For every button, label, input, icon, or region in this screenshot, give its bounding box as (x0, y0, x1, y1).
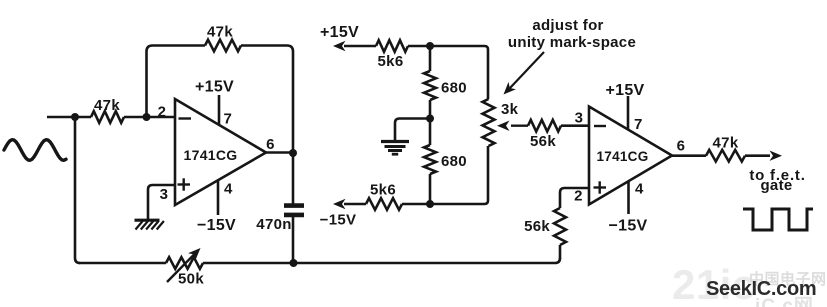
wire: mid node to ground (395, 119, 430, 142)
wire + arrow: to -15V rail (344, 203, 366, 206)
wire: 680 lower to bottom node (429, 174, 432, 204)
ground (U1 pin 3, hatched) (135, 219, 160, 222)
resistor R 56k (to pin 3) (528, 120, 561, 132)
op-amp U2 (1741CG) triangle (589, 107, 672, 205)
resistor R 56k (pin 2) (554, 208, 566, 245)
svg-text:6: 6 (677, 138, 686, 155)
sine-wave input symbol (4, 140, 66, 161)
3k wiper arrow (511, 124, 528, 126)
wire + arrow: output to f.e.t. gate (745, 154, 770, 157)
wire: bottom rail right segment (203, 258, 560, 263)
node: summing junction (143, 113, 151, 121)
resistor R 680 (upper) (424, 71, 436, 100)
node: U1 output junction (289, 149, 297, 157)
wire: capacitor to bottom rail (292, 217, 295, 263)
U2 non-inverting plus sign (594, 186, 607, 188)
watermark 21ic (672, 264, 756, 306)
wire: 56k to U2 pin 3 (561, 124, 589, 127)
node: divider top (426, 42, 434, 50)
resistor R 5k6 (bottom) (366, 198, 402, 210)
svg-text:47k: 47k (713, 135, 739, 152)
svg-text:+15V: +15V (605, 82, 644, 99)
wire: 680 to mid node (429, 100, 432, 119)
svg-text:−15V: −15V (320, 212, 357, 229)
wire: bottom rail left segment (79, 262, 166, 265)
wire: U1 pin 7 supply lead (218, 95, 221, 126)
svg-text:2: 2 (158, 104, 167, 121)
square-wave output symbol (743, 209, 813, 230)
svg-text:5k6: 5k6 (370, 182, 396, 199)
U2 inverting minus sign (594, 125, 606, 127)
svg-text:1741CG: 1741CG (184, 147, 238, 163)
wire: output node down to capacitor (292, 153, 295, 204)
svg-text:680: 680 (441, 80, 467, 97)
wire: U2 pin 4 supply lead (627, 181, 630, 214)
wire: input stub (47, 116, 91, 119)
wire: divider node down (429, 46, 432, 71)
svg-text:4: 4 (635, 181, 644, 198)
svg-text:adjust for: adjust for (532, 17, 603, 34)
wire: 56k down to bottom rail (559, 245, 562, 259)
svg-text:1741CG: 1741CG (596, 149, 648, 164)
resistor R 680 (lower) (424, 145, 436, 174)
op-amp U1 (1741CG) triangle (175, 99, 266, 205)
svg-text:unity mark-space: unity mark-space (508, 34, 636, 51)
wire: U1 output (266, 151, 293, 154)
svg-text:3: 3 (575, 110, 584, 127)
svg-text:47k: 47k (94, 97, 120, 114)
annotation arrow to 3k (510, 52, 544, 88)
watermark chinese (749, 268, 827, 289)
svg-text:470n: 470n (256, 216, 291, 233)
watermark SeekIC.com (706, 278, 816, 301)
wire: to pin 2 (124, 116, 175, 119)
svg-text:7: 7 (224, 111, 232, 128)
wire: feedback loop left vertical (147, 46, 206, 118)
watermark row2 (755, 291, 827, 307)
ground (divider, bar style) (381, 140, 409, 143)
wire: top rail to divider node (408, 46, 488, 99)
resistor R 47k (input) (91, 111, 124, 123)
wire + arrow: to +15V rail (344, 45, 376, 48)
svg-text:3k: 3k (501, 101, 519, 118)
50k wiper arrow (167, 253, 196, 283)
resistor R 5k6 (top) (376, 40, 408, 52)
node: divider bottom (426, 200, 434, 208)
potentiometer R 3k (483, 99, 495, 146)
wire: mid node down (429, 119, 432, 146)
wire: feedback top rail right part (241, 46, 293, 153)
node: divider mid (426, 115, 434, 123)
svg-text:47k: 47k (207, 24, 233, 41)
wire: U2 pin 7 supply lead (627, 96, 630, 130)
wire: U1 pin 3 to ground (148, 185, 175, 219)
svg-text:56k: 56k (524, 218, 550, 235)
svg-text:−15V: −15V (608, 218, 647, 235)
svg-text:+15V: +15V (320, 24, 359, 41)
wire: U1 pin 4 supply lead (217, 180, 220, 216)
svg-text:+15V: +15V (195, 79, 234, 96)
wire: left vertical to bottom rail (75, 117, 80, 263)
svg-text:2: 2 (574, 188, 583, 205)
wire: U2 output (672, 154, 706, 157)
wire: U2 pin 2 net (560, 188, 589, 208)
U1 inverting input minus sign (179, 117, 192, 119)
svg-text:7: 7 (634, 116, 642, 133)
resistor R 47k (output) (706, 150, 745, 162)
svg-text:3: 3 (160, 186, 169, 203)
svg-text:50k: 50k (178, 271, 204, 288)
svg-text:−15V: −15V (197, 217, 236, 234)
svg-text:4: 4 (224, 181, 233, 198)
node: input junction (71, 113, 79, 121)
svg-text:680: 680 (441, 153, 467, 170)
svg-text:56k: 56k (530, 133, 556, 150)
capacitor C 470n (284, 203, 304, 208)
resistor R 47k (feedback) (205, 40, 241, 52)
svg-text:6: 6 (266, 136, 275, 153)
node: bottom rail junction (290, 259, 298, 267)
wire: bottom node to 3k pot bottom (402, 146, 488, 204)
U1 non-inverting plus sign (178, 183, 191, 185)
potentiometer R 50k (166, 257, 203, 269)
svg-text:5k6: 5k6 (378, 53, 404, 70)
svg-text:gate: gate (760, 177, 792, 194)
